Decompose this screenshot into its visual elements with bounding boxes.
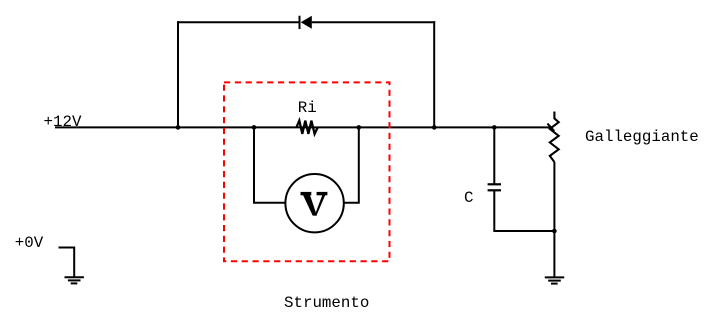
wire: voltmeter left lead [254,127,285,202]
capacitor C [488,184,501,190]
potentiometer Galleggiante [547,112,558,163]
node: voltmeter tap right [357,125,362,130]
svg-text:Ri: Ri [298,99,317,117]
svg-text:+0V: +0V [15,234,44,252]
svg-text:+12V: +12V [44,113,82,131]
wiper cross stroke [547,124,554,131]
wire: left vertical to diode loop [177,21,179,127]
svg-text:Galleggiante: Galleggiante [585,128,699,146]
node: junction +12V / diode loop left [176,125,181,130]
wire: capacitor top lead [493,127,495,184]
wire: capacitor bottom lead to ground node [494,190,554,231]
instrument boundary box (red dashed) [224,82,390,261]
wire: 0V stub to ground [59,248,75,278]
ground symbol (right) [545,277,564,283]
resistor Ri [296,121,317,134]
wire: potentiometer bottom lead [553,162,555,277]
wire: main +12V rail [55,126,552,128]
node: capacitor tap on +12V rail [492,125,497,130]
svg-text:C: C [464,189,473,207]
wire: right vertical of diode loop [433,21,435,127]
wire: top horizontal (diode loop, right part) [312,21,435,23]
wire: top horizontal (diode loop, left part) [177,21,300,23]
node: junction +12V / diode loop right [432,125,437,130]
node: voltmeter tap left [252,125,257,130]
node: junction capacitor / potentiometer bottom [552,229,557,234]
diode D1 [300,16,312,29]
wire: voltmeter right lead [344,127,359,202]
ground symbol (left) [65,277,84,283]
svg-text:Strumento: Strumento [284,294,369,312]
voltmeter V glyph [301,192,328,216]
voltmeter U1 (circle) [285,174,343,232]
